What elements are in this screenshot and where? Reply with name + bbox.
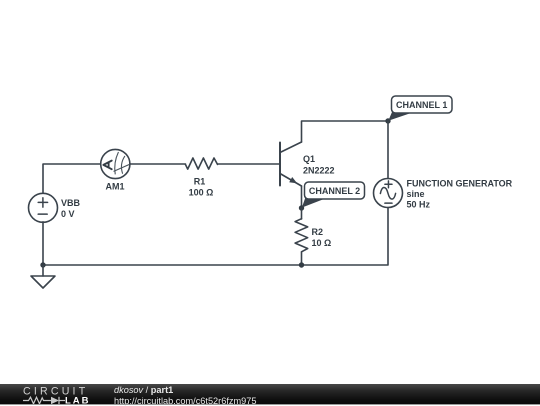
probe CHANNEL 1 xyxy=(388,96,452,121)
wire R1 to Q1 base xyxy=(218,163,281,165)
wire Q1 collector to channel-1 junction xyxy=(302,121,389,142)
svg-text:0 V: 0 V xyxy=(61,209,75,219)
svg-text:R1: R1 xyxy=(194,177,206,187)
voltage source VBB xyxy=(29,193,58,222)
svg-text:10 Ω: 10 Ω xyxy=(312,238,332,248)
node junction channel 1 xyxy=(385,118,390,123)
ammeter AM1 xyxy=(101,149,131,178)
resistor R2 xyxy=(295,208,308,265)
svg-text:AM1: AM1 xyxy=(105,182,124,192)
svg-text:2N2222: 2N2222 xyxy=(303,166,335,176)
label VBB / 0 V xyxy=(61,198,81,219)
node junction ground xyxy=(40,262,45,267)
wire Q1 emitter to channel-2 junction xyxy=(301,186,303,208)
wire function generator to bottom rail xyxy=(43,208,388,266)
resistor R1 xyxy=(185,158,217,169)
svg-text:VBB: VBB xyxy=(61,198,81,208)
CircuitLab footer bar xyxy=(0,384,540,404)
label R1 / 100 Ω xyxy=(189,177,214,198)
node junction R2 bottom xyxy=(299,262,304,267)
probe CHANNEL 2 xyxy=(302,182,365,208)
wire VBB bottom to ground junction xyxy=(42,222,44,265)
transistor Q1 xyxy=(280,142,302,186)
wire ammeter to R1 xyxy=(130,163,186,165)
CircuitLab logo xyxy=(0,384,110,404)
svg-text:50 Hz: 50 Hz xyxy=(407,200,431,210)
svg-text:FUNCTION GENERATOR: FUNCTION GENERATOR xyxy=(407,179,513,189)
wire VBB top to ammeter xyxy=(43,164,101,193)
svg-text:Q1: Q1 xyxy=(303,154,315,164)
ground xyxy=(31,265,55,288)
svg-text:CHANNEL 1: CHANNEL 1 xyxy=(396,100,447,110)
svg-text:100 Ω: 100 Ω xyxy=(189,188,214,198)
svg-text:R2: R2 xyxy=(312,227,324,237)
label Q1 / 2N2222 xyxy=(303,154,335,176)
svg-text:sine: sine xyxy=(407,189,425,199)
svg-text:LAB: LAB xyxy=(65,395,91,404)
wire channel-1 junction to function generator xyxy=(387,121,389,179)
svg-text:CHANNEL 2: CHANNEL 2 xyxy=(309,186,360,196)
node junction channel 2 / emitter / R2 xyxy=(299,205,304,210)
function generator VF xyxy=(374,179,403,208)
label R2 / 10 Ω xyxy=(312,227,332,248)
label FUNCTION GENERATOR / sine / 50 Hz xyxy=(407,179,513,210)
attribution text xyxy=(114,385,256,406)
